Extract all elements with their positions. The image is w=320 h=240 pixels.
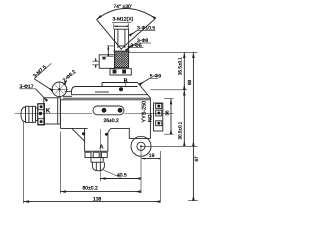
cover top line	[102, 82, 138, 84]
left plug dome cap	[21, 107, 26, 122]
extension line body top right	[150, 89, 187, 91]
angle extension line right	[121, 19, 156, 50]
svg-text:35.5±0.1: 35.5±0.1	[177, 57, 182, 75]
tiny label blob in boss	[102, 57, 105, 60]
svg-text:3-M12(X): 3-M12(X)	[113, 17, 134, 23]
circle center dot	[58, 88, 60, 90]
gusset hypotenuse	[72, 128, 85, 141]
gland nut	[91, 158, 103, 163]
A centerline	[99, 129, 101, 182]
svg-text:2-Φ6.2: 2-Φ6.2	[62, 69, 78, 84]
circle centerline vertical	[58, 82, 60, 98]
plug mount plate to body	[44, 98, 61, 124]
svg-text:K: K	[46, 108, 51, 115]
angular dimension arc 74 deg	[97, 8, 156, 19]
boss small dimension ticks	[92, 60, 99, 62]
left shelf lower line	[63, 95, 72, 97]
cover slant face	[138, 83, 151, 99]
slot screw right	[118, 108, 123, 113]
right dim 36 vertical	[170, 99, 172, 135]
stem bushing outline	[115, 29, 129, 51]
roller vertical extension down	[140, 146, 142, 193]
circle centerline horizontal	[51, 88, 68, 90]
leader 5-phi9	[150, 77, 158, 79]
leader 3-phi8	[137, 42, 151, 44]
mounting circle top-left	[52, 82, 67, 97]
dim 88 line	[192, 52, 194, 146]
circle spoke diagonal 1	[55, 85, 63, 93]
mid profile line	[72, 94, 149, 96]
B leader stub	[125, 83, 127, 86]
svg-text:5-Φ9: 5-Φ9	[150, 73, 161, 79]
stem shoulder line	[113, 50, 129, 52]
leader for 2-phi6.2	[64, 81, 67, 85]
plug cap seams	[25, 107, 27, 122]
extension line from stem top to right dims	[129, 51, 198, 53]
gland leader diagonal	[104, 170, 121, 178]
cover screw dot	[119, 87, 123, 91]
svg-text:67: 67	[194, 156, 199, 162]
stem inner bore lines	[117, 29, 119, 48]
svg-text:NO.: NO.	[148, 113, 154, 122]
body screw dot bottom right	[105, 133, 108, 136]
svg-text:19: 19	[149, 153, 155, 159]
dim 19 right extension	[159, 151, 161, 202]
slot screw left	[102, 108, 107, 113]
boss box left of stem	[99, 55, 114, 69]
roller center dot	[140, 145, 142, 147]
bracket bottom	[129, 138, 150, 140]
svg-text:40.5: 40.5	[117, 173, 127, 179]
cover middle line	[72, 87, 138, 92]
leader 3-phi10.5	[137, 30, 156, 32]
flange bottom screw square	[38, 119, 44, 125]
dim 67 line	[192, 146, 194, 200]
mount plate inner line	[57, 98, 59, 124]
svg-text:3-Φ17: 3-Φ17	[20, 84, 34, 90]
svg-text:B: B	[124, 79, 128, 85]
angle extension line left	[97, 20, 122, 50]
svg-text:3-M7.5: 3-M7.5	[32, 64, 48, 79]
short head bottom line	[95, 91, 109, 93]
body left edge	[59, 100, 61, 129]
plug neck	[36, 108, 38, 121]
small vertical dimension left of stem	[107, 46, 109, 56]
bellows flange	[38, 104, 45, 125]
bottom flange squares	[85, 152, 91, 157]
svg-text:3-Φ10.5: 3-Φ10.5	[137, 26, 155, 32]
svg-text:74° ±30': 74° ±30'	[114, 4, 132, 10]
body bottom right	[111, 127, 130, 129]
dim 19 line	[142, 158, 161, 160]
dim 80 left extension	[59, 132, 61, 194]
shelf step	[71, 92, 73, 95]
svg-text:36: 36	[165, 110, 170, 115]
flange top screw square	[38, 104, 44, 110]
dim 138 left extension	[22, 122, 24, 204]
terminal strip right	[154, 103, 163, 131]
svg-text:30.5±0.1: 30.5±0.1	[177, 121, 182, 139]
svg-text:3-Φ6: 3-Φ6	[130, 43, 141, 49]
body right edge	[149, 98, 151, 139]
roller hub	[137, 142, 145, 150]
chamfer to bottom block right	[108, 128, 111, 132]
shelf right of circle	[65, 91, 72, 93]
cover left edge	[101, 83, 103, 87]
body top double line	[63, 97, 150, 99]
svg-text:26±0.2: 26±0.2	[104, 118, 119, 124]
dim 138 line	[23, 201, 160, 203]
svg-text:138: 138	[93, 197, 102, 203]
dim extension stubs	[113, 24, 115, 30]
svg-text:A: A	[100, 144, 104, 150]
circle spoke diagonal 2	[55, 85, 63, 93]
roller circle	[131, 136, 151, 156]
bottom right tick	[188, 200, 198, 202]
leader for 3-M7.5	[34, 79, 52, 91]
leader 3-phi6	[130, 47, 144, 49]
dome stripes	[95, 162, 97, 170]
body bottom left	[60, 127, 87, 129]
body step down right	[128, 128, 130, 139]
mounting slot	[93, 106, 124, 115]
hatched gland nut on stem	[115, 51, 129, 67]
body screw dot bottom left	[82, 132, 85, 135]
underline for 3-M7.5	[34, 63, 51, 79]
dim 35.5 line	[183, 52, 185, 90]
dim 30.5 line	[183, 90, 185, 147]
plug striped cylinder	[26, 106, 36, 122]
dimension line under 3-M12 label	[114, 25, 129, 27]
roller center extension to right	[141, 145, 198, 147]
main centerline	[15, 112, 93, 114]
head plate with screws	[110, 69, 131, 75]
gland dome	[92, 162, 104, 171]
bottom block	[85, 129, 108, 152]
svg-text:88: 88	[187, 79, 192, 85]
svg-text:80±0.2: 80±0.2	[83, 185, 98, 191]
leader for 3-phi7 label	[20, 88, 36, 90]
dim 40.5 line	[100, 178, 141, 180]
flange center dot	[39, 112, 42, 115]
label underline 3-M12	[112, 21, 131, 23]
dim 80 line	[60, 191, 140, 193]
bore bottom line	[118, 45, 125, 47]
